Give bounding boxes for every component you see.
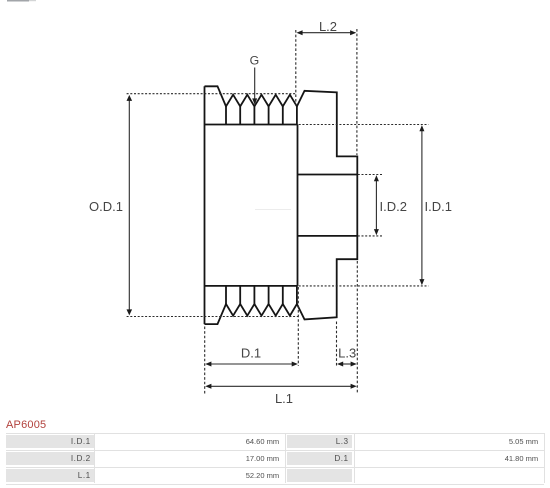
svg-text:I.D.2: I.D.2 bbox=[380, 199, 407, 214]
svg-text:L.2: L.2 bbox=[319, 19, 337, 34]
svg-text:O.D.1: O.D.1 bbox=[89, 199, 123, 214]
svg-text:L.3: L.3 bbox=[338, 346, 356, 361]
svg-text:D.1: D.1 bbox=[241, 346, 261, 361]
svg-text:I.D.1: I.D.1 bbox=[425, 199, 452, 214]
svg-text:G: G bbox=[250, 54, 260, 68]
svg-text:L.1: L.1 bbox=[275, 391, 293, 406]
